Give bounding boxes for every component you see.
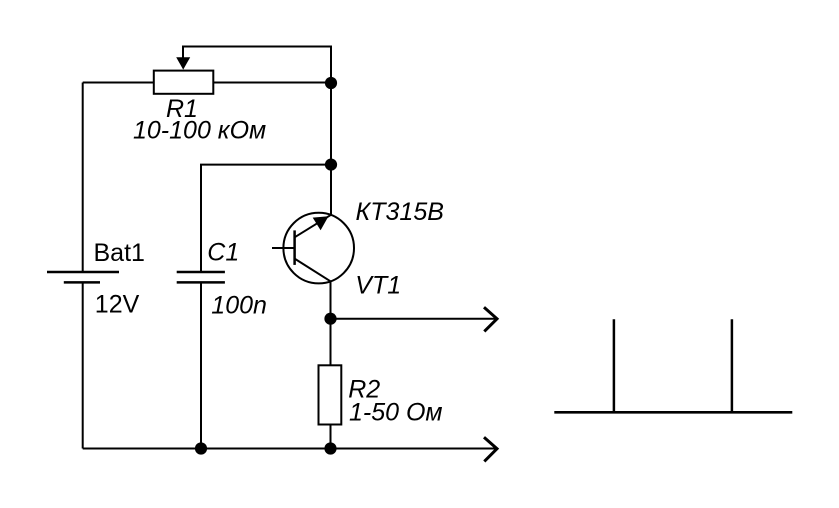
wire C1 bottom [200, 282, 202, 448]
wire battery bottom to ground rail [82, 282, 84, 448]
transistor VT1 circle [283, 213, 354, 284]
wire main vertical collector line [330, 83, 332, 215]
arrow top output [484, 307, 497, 331]
wire bottom rail [83, 448, 497, 450]
svg-text:10-100 кОм: 10-100 кОм [133, 116, 266, 144]
node junction dot C1 link [325, 159, 337, 171]
wire R2 bottom [330, 425, 332, 449]
battery Bat1 short plate [64, 281, 100, 284]
svg-text:1-50 Ом: 1-50 Ом [349, 399, 443, 427]
waveform baseline [554, 411, 792, 414]
node junction dot R2 ground [324, 442, 336, 454]
resistor R1 body [154, 71, 214, 94]
svg-text:100n: 100n [211, 291, 267, 319]
svg-text:C1: C1 [207, 238, 239, 266]
transistor VT1 collector line [295, 259, 331, 282]
node junction dot output [324, 313, 336, 325]
wire left vertical rail (battery top) [82, 83, 84, 273]
arrow bottom output [484, 437, 497, 461]
transistor VT1 base lead [272, 247, 295, 249]
transistor VT1 emitter line [295, 215, 331, 238]
svg-text:Bat1: Bat1 [94, 239, 145, 267]
wire R1 right lead [213, 82, 331, 84]
battery Bat1 long plate [47, 271, 119, 274]
transistor VT1 base bar [293, 230, 296, 265]
resistor R2 body [319, 365, 342, 424]
capacitor C1 bottom plate [177, 281, 225, 284]
waveform pulse 1 [613, 319, 616, 412]
waveform pulse 2 [731, 319, 734, 412]
svg-text:12V: 12V [95, 290, 140, 318]
wire R1 left lead [83, 82, 154, 84]
capacitor C1 top plate [177, 271, 225, 274]
wire output top [331, 318, 498, 320]
wire collector down to output node [330, 281, 332, 319]
node junction dot C1 ground [195, 442, 207, 454]
wire output node to R2 [330, 319, 332, 366]
wire C1 top link [201, 165, 331, 273]
potentiometer R1 wiper arrow [176, 57, 190, 69]
transistor VT1 emitter arrow [313, 216, 329, 230]
node junction dot R1-collector [325, 77, 337, 89]
wire top feedback loop from wiper to collector node [183, 47, 331, 84]
svg-text:КТ315В: КТ315В [356, 198, 444, 226]
svg-text:VT1: VT1 [355, 271, 401, 299]
